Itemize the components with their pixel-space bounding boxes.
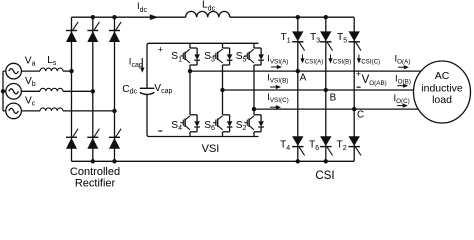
- svg-text:+: +: [158, 44, 163, 54]
- current arrow IO(B): [397, 84, 408, 88]
- current arrow IVSI(B): [270, 85, 281, 89]
- thyristor T5: [349, 31, 362, 50]
- wire VSI leg2 mid: [222, 65, 224, 90]
- ac source Vc: [6, 103, 22, 119]
- current arrow ICSI(A): [300, 55, 304, 64]
- IGBT S1: [180, 48, 200, 65]
- junction node C: [352, 107, 356, 111]
- wire top dc rail right section: [230, 16, 354, 18]
- inductor Ls phase c: [40, 108, 63, 111]
- svg-text:Ldc: Ldc: [202, 0, 216, 12]
- ac source Vb: [6, 84, 22, 100]
- current arrow Idc: [150, 14, 159, 20]
- thyristor T2: [349, 136, 362, 155]
- junction top rail CSI leg1: [296, 15, 300, 19]
- svg-text:IO(B): IO(B): [395, 74, 411, 86]
- wire bottom dc rail: [72, 160, 355, 162]
- svg-text:T2: T2: [337, 139, 347, 152]
- junction phase c: [112, 109, 116, 113]
- thyristor rectifier bottom leg2: [87, 129, 99, 149]
- wire VSI leg3 lower: [253, 109, 255, 115]
- wire phase a: [21, 70, 40, 72]
- svg-text:S4: S4: [171, 120, 182, 132]
- inductor Ldc: [186, 11, 230, 17]
- svg-text:S2: S2: [236, 120, 247, 132]
- wire CSI leg1: [297, 17, 299, 161]
- svg-text:T1: T1: [281, 32, 291, 45]
- junction VSI phase A: [188, 69, 192, 73]
- junction top rail CSI leg2: [324, 15, 328, 19]
- wire phase B line: [223, 89, 414, 91]
- wire VSI leg2 stub bottom: [222, 132, 224, 137]
- inductor Ls phase b: [40, 88, 63, 91]
- svg-text:Vb: Vb: [25, 76, 36, 88]
- svg-text:T6: T6: [309, 139, 319, 152]
- IGBT S5: [244, 48, 264, 65]
- svg-text:Cdc: Cdc: [122, 84, 137, 96]
- svg-text:S5: S5: [236, 51, 247, 63]
- thyristor rectifier bottom leg1: [66, 129, 78, 149]
- junction top rail leg2: [91, 15, 95, 19]
- wire VSI leg2 stub top: [222, 43, 224, 48]
- svg-text:T3: T3: [310, 32, 320, 45]
- wire VSI left bus upper: [147, 43, 259, 88]
- wire VSI left bus lower: [147, 94, 259, 137]
- wire VSI leg1 stub bottom: [189, 132, 191, 137]
- svg-text:CSI(A): CSI(A): [305, 59, 324, 66]
- junction phase a: [69, 69, 73, 73]
- svg-text:Idc: Idc: [137, 1, 148, 14]
- current arrow ICSI(C): [357, 55, 361, 64]
- inductor Ls phase a: [40, 68, 63, 71]
- current arrow IVSI(C): [270, 105, 281, 109]
- wire VSI leg1 stub top: [189, 43, 191, 48]
- ac source Va: [6, 63, 22, 79]
- junction VSI phase C: [252, 107, 256, 111]
- svg-text:Controlled: Controlled: [70, 166, 120, 178]
- current arrow IO(C): [397, 104, 408, 108]
- svg-text:IVSI(A): IVSI(A): [267, 54, 288, 66]
- IGBT S4: [180, 115, 200, 132]
- svg-text:+: +: [356, 69, 361, 79]
- IGBT S6: [213, 115, 233, 132]
- current arrow IVSI(A): [271, 65, 282, 69]
- svg-text:S3: S3: [204, 51, 215, 63]
- junction bottom rail leg2: [91, 159, 95, 163]
- svg-text:Icap: Icap: [129, 56, 143, 68]
- junction phase b: [91, 89, 95, 93]
- IGBT S2: [244, 115, 264, 132]
- current arrow Icap: [141, 58, 143, 69]
- wire CSI leg2: [325, 17, 327, 161]
- junction node A: [296, 69, 300, 73]
- thyristor rectifier top leg1: [66, 22, 78, 42]
- wire VSI leg3 stub top: [253, 43, 255, 48]
- junction neutral bus: [1, 89, 5, 93]
- junction bottom rail CSI leg1: [296, 159, 300, 163]
- thyristor T4: [292, 136, 305, 155]
- svg-text:C: C: [357, 109, 364, 120]
- label minus VSI bus: [158, 130, 162, 132]
- svg-text:load: load: [432, 94, 452, 106]
- svg-text:Ls: Ls: [47, 55, 57, 67]
- load AC inductive: [414, 61, 471, 123]
- junction VSI phase B: [220, 88, 224, 92]
- wire VSI leg2 lower: [222, 90, 224, 115]
- label VO(AB) minus: [357, 86, 361, 88]
- wire rectifier leg 1: [71, 17, 73, 161]
- thyristor rectifier top leg2: [87, 22, 99, 42]
- wire VSI leg1 lower: [189, 71, 191, 115]
- wire VSI leg1 mid: [189, 65, 191, 71]
- svg-text:S6: S6: [204, 120, 215, 132]
- svg-text:Vc: Vc: [25, 95, 36, 107]
- wire rectifier leg 2: [92, 17, 94, 161]
- junction node B: [324, 88, 328, 92]
- thyristor rectifier bottom leg3: [109, 129, 121, 149]
- capacitor Cdc: [140, 87, 155, 89]
- svg-text:VSI: VSI: [202, 143, 220, 155]
- svg-text:IO(A): IO(A): [395, 54, 411, 66]
- svg-text:Rectifier: Rectifier: [75, 178, 116, 190]
- svg-text:VO(AB): VO(AB): [362, 74, 387, 87]
- svg-text:CSI: CSI: [315, 170, 334, 182]
- svg-text:T4: T4: [280, 139, 290, 152]
- svg-text:Vcap: Vcap: [154, 83, 172, 95]
- svg-text:AC: AC: [435, 70, 450, 82]
- thyristor T6: [320, 136, 333, 155]
- svg-text:T5: T5: [337, 32, 347, 45]
- svg-text:CSI(B): CSI(B): [333, 59, 352, 66]
- wire VSI leg3 stub bottom: [253, 132, 255, 137]
- wire phase C line: [254, 108, 418, 110]
- wire VSI leg3 mid: [253, 65, 255, 109]
- wire phase b: [21, 90, 40, 92]
- junction top rail leg3: [112, 15, 116, 19]
- wire phase b to leg: [63, 90, 93, 92]
- current arrow ICSI(B): [328, 55, 332, 64]
- svg-text:IVSI(C): IVSI(C): [267, 92, 289, 104]
- junction bottom rail leg3: [112, 159, 116, 163]
- svg-text:S1: S1: [171, 51, 182, 63]
- svg-text:B: B: [330, 92, 337, 103]
- wire rectifier leg 3: [114, 17, 116, 161]
- thyristor T1: [292, 31, 305, 50]
- wire phase c to leg: [63, 110, 115, 112]
- svg-text:inductive: inductive: [421, 82, 463, 94]
- current arrow IO(A): [398, 65, 409, 69]
- svg-text:A: A: [300, 72, 307, 83]
- wire source neutral bus: [2, 71, 4, 111]
- svg-text:CSI(C): CSI(C): [361, 59, 380, 66]
- svg-text:IVSI(B): IVSI(B): [267, 73, 288, 85]
- IGBT S3: [213, 48, 233, 65]
- wire phase c: [21, 110, 40, 112]
- wire top dc rail left section: [72, 16, 186, 18]
- wire phase A line: [190, 70, 422, 72]
- svg-text:Va: Va: [25, 55, 36, 67]
- thyristor T3: [320, 31, 333, 50]
- junction bottom rail CSI leg2: [324, 159, 328, 163]
- wire phase a to leg: [63, 70, 72, 72]
- thyristor rectifier top leg3: [109, 22, 121, 42]
- svg-text:IO(C): IO(C): [394, 93, 410, 105]
- wire CSI leg3: [353, 17, 355, 161]
